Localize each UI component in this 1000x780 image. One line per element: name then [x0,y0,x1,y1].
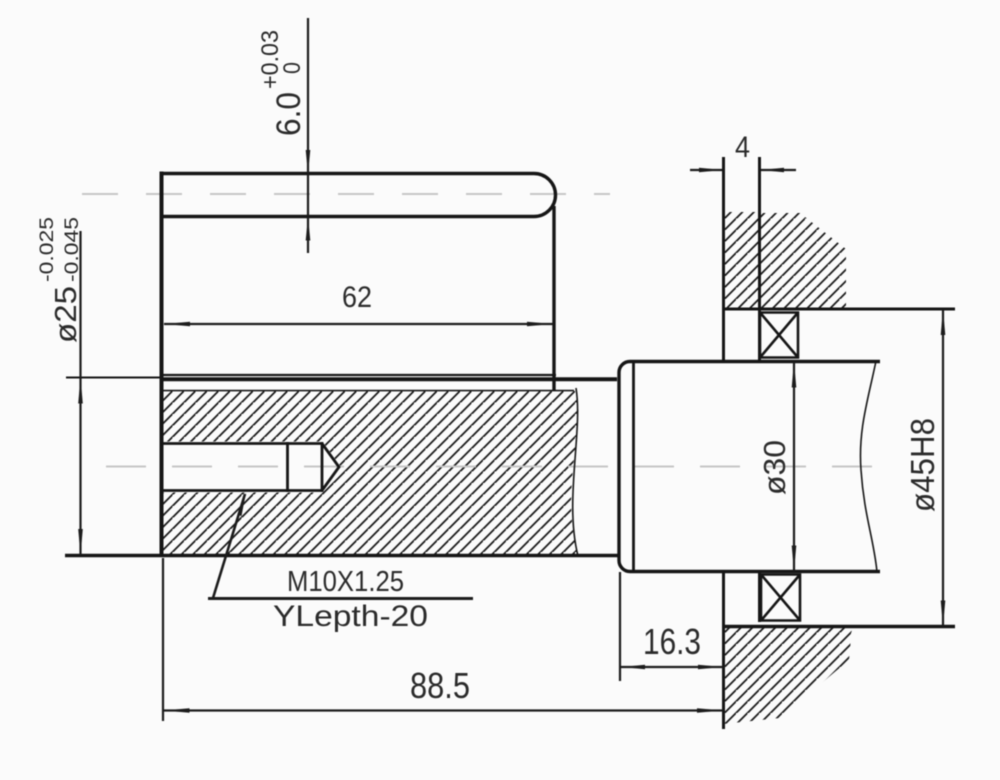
svg-text:88.5: 88.5 [410,665,470,706]
svg-text:16.3: 16.3 [643,621,701,662]
svg-text:ø45H8: ø45H8 [904,418,941,512]
svg-text:ø25: ø25 [48,286,83,343]
svg-text:ø30: ø30 [757,440,792,495]
svg-text:YLepth-20: YLepth-20 [273,600,428,633]
svg-text:-0.025: -0.025 [37,217,58,282]
svg-text:+0.03: +0.03 [257,30,284,89]
svg-text:6.0: 6.0 [270,92,308,136]
svg-text:M10X1.25: M10X1.25 [287,566,404,598]
svg-text:4: 4 [735,131,750,164]
svg-text:-0.045: -0.045 [62,217,83,282]
svg-text:0: 0 [279,62,306,74]
svg-text:62: 62 [342,281,372,314]
